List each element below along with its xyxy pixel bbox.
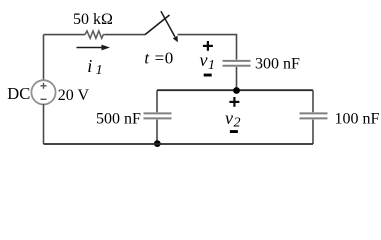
wire left side top (corner down to source) <box>43 35 45 80</box>
wire cap C2 to bottom rail <box>156 120 158 144</box>
node A junction dot <box>233 87 240 94</box>
wire left side bottom (source down to bottom rail) <box>43 104 45 144</box>
label v2 plus <box>229 97 239 107</box>
svg-text:20 V: 20 V <box>58 87 90 104</box>
svg-text:100 nF: 100 nF <box>335 111 380 128</box>
DC source minus mark <box>41 98 47 100</box>
switch closing arrow <box>161 11 178 42</box>
label v1 plus <box>203 41 213 51</box>
wire bottom rail <box>44 143 314 145</box>
svg-text:500 nF: 500 nF <box>96 111 141 128</box>
wire resistor to switch <box>105 34 145 36</box>
current arrow i1 <box>77 45 111 51</box>
svg-text:1: 1 <box>208 58 215 73</box>
svg-text:2: 2 <box>234 115 241 130</box>
wire cap C3 to bottom rail <box>312 120 314 144</box>
wire inner-right down to cap C3 <box>312 90 314 112</box>
svg-text:v: v <box>225 108 233 128</box>
svg-text:50 kΩ: 50 kΩ <box>73 11 113 28</box>
DC source V1 20V circle <box>31 80 55 104</box>
svg-text:1: 1 <box>96 63 103 78</box>
capacitor C2 500 nF plates <box>144 113 172 118</box>
svg-text:i: i <box>87 56 92 76</box>
node B junction dot <box>154 140 161 147</box>
svg-text:v: v <box>200 50 208 70</box>
capacitor C1 300 nF plates <box>223 61 251 66</box>
wire inner top (node A rail) <box>157 89 313 91</box>
wire top-left horizontal (source to resistor) <box>44 34 86 36</box>
wire inner-left down to cap C2 <box>156 90 158 112</box>
label v1 minus <box>204 74 212 77</box>
DC source plus mark <box>41 83 47 89</box>
wire switch to top-right corner and down to cap C1 <box>178 35 237 60</box>
capacitor C3 100 nF plates <box>300 113 328 118</box>
svg-text:300 nF: 300 nF <box>255 56 300 73</box>
label v2 minus <box>230 130 238 133</box>
switch blade (open, at t=0) <box>145 15 170 35</box>
resistor R 50 kOhm zigzag <box>85 31 105 38</box>
wire cap C1 to node A <box>236 67 238 90</box>
svg-text:DC: DC <box>7 84 30 103</box>
svg-text:t =0: t =0 <box>144 48 173 67</box>
